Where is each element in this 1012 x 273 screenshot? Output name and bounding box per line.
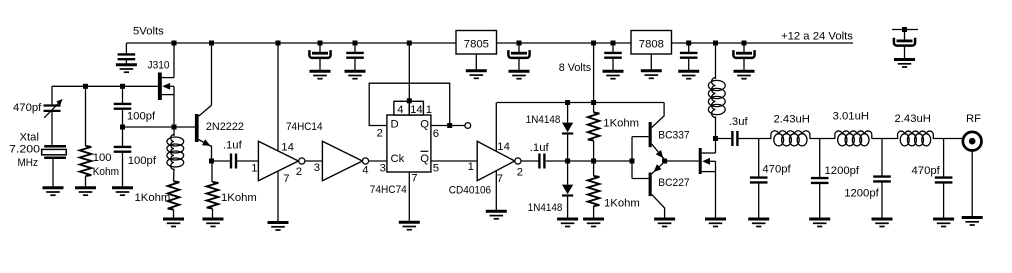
wire 8V feed down	[593, 43, 595, 103]
diode D2 1N4148	[562, 161, 573, 218]
wire J310 source down	[173, 86, 175, 127]
svg-text:Kohm: Kohm	[93, 166, 119, 178]
svg-text:Q: Q	[420, 153, 429, 165]
node gate-100K	[83, 84, 88, 89]
pin 2	[296, 166, 302, 178]
diode D1 1N4148	[562, 103, 573, 162]
label 2.43uH L3	[895, 113, 931, 125]
svg-text:7: 7	[411, 172, 417, 184]
wire L3 to RF out	[933, 138, 962, 140]
wire 7805 ground lead	[475, 54, 477, 70]
svg-text:1Kohm: 1Kohm	[604, 198, 640, 210]
svg-text:470pf: 470pf	[912, 165, 941, 177]
svg-text:7: 7	[283, 173, 289, 185]
wire RF shield to gnd	[971, 151, 973, 217]
label 5Volts	[133, 26, 164, 38]
svg-text:1N4148: 1N4148	[526, 114, 561, 126]
svg-text:4: 4	[362, 164, 368, 176]
ground below 470pf-b	[933, 219, 954, 227]
wire emitter to coupling cap	[212, 160, 231, 162]
ground below FET	[705, 219, 726, 227]
capacitor C8 input electrolytic	[894, 30, 915, 59]
svg-text:.1uf: .1uf	[530, 142, 550, 154]
ground below emitter resistor	[203, 219, 224, 227]
node rail-C2	[318, 41, 323, 46]
wire 8V rail segment	[497, 42, 632, 44]
wire rail to RF choke	[715, 43, 717, 79]
wire CD40106 Vcc	[495, 103, 497, 152]
pin 3 label	[380, 162, 386, 174]
svg-text:100pf: 100pf	[128, 155, 157, 167]
node signal-R	[591, 159, 596, 164]
ground below 100pf	[112, 188, 133, 196]
ground below C2	[310, 71, 331, 79]
capacitor trimmer 470pf	[44, 86, 63, 145]
label CD40106	[449, 185, 491, 197]
svg-text:1: 1	[251, 162, 257, 174]
node base riser	[630, 159, 635, 164]
crystal X1 7.200MHz	[42, 146, 67, 186]
label 470pf-b	[912, 165, 941, 177]
pin 3	[314, 162, 320, 174]
svg-text:D: D	[391, 118, 399, 130]
svg-text:RF: RF	[966, 113, 981, 125]
node driver output	[662, 159, 667, 164]
svg-text:14: 14	[410, 104, 423, 116]
svg-text:7.200: 7.200	[9, 144, 40, 156]
label 1N4148 lower	[528, 202, 563, 214]
node Q-feedback	[447, 123, 452, 128]
node rail-J310	[172, 41, 177, 46]
svg-text:1Kohm: 1Kohm	[135, 192, 171, 204]
svg-text:2: 2	[517, 167, 523, 179]
wire +12-24V rail segment	[672, 42, 854, 44]
svg-text:Xtal: Xtal	[20, 131, 39, 143]
svg-text:470pf: 470pf	[762, 164, 791, 176]
svg-text:4: 4	[397, 104, 403, 116]
wire U1B to 74HC74 Ck	[369, 160, 387, 162]
capacitor C3	[346, 43, 364, 70]
svg-text:7805: 7805	[464, 38, 489, 50]
wire rail to 74HC74 pin14	[408, 43, 410, 101]
wire Qbar to CD40106	[431, 160, 477, 162]
pin 2 label	[517, 167, 523, 179]
ground below 1200pf-a	[809, 219, 830, 227]
ground below 100Kohm	[75, 188, 96, 196]
label 1N4148 upper	[526, 114, 561, 126]
regulator U3 7805	[456, 31, 497, 55]
svg-text:7: 7	[497, 173, 503, 185]
capacitor C2 electrolytic	[309, 43, 330, 70]
svg-text:3: 3	[380, 162, 386, 174]
inductor L2 3.01uH	[835, 131, 872, 146]
wire .3uf to L1	[739, 138, 771, 140]
wire rail left end drop	[125, 43, 127, 54]
svg-text:1: 1	[468, 161, 474, 173]
pin 6 label	[433, 128, 439, 140]
ground below C1	[116, 65, 137, 73]
capacitor C5	[604, 43, 622, 70]
label 7.200	[9, 144, 40, 156]
wire CD40106 gnd	[495, 171, 497, 210]
capacitor C4 electrolytic	[508, 43, 529, 70]
node rail-C5	[611, 41, 616, 46]
wire 2N2222 emitter down	[211, 146, 213, 162]
label Qbar	[420, 151, 429, 165]
wire tap to .3uf	[716, 138, 732, 140]
svg-text:6: 6	[433, 128, 439, 140]
ground below RF connector	[962, 218, 983, 226]
wire 74HC74 pin7 gnd	[408, 172, 410, 221]
label Xtal	[20, 131, 39, 143]
flip-flop U2 74HC74 body	[387, 115, 431, 172]
capacitor 100pf lower	[114, 127, 132, 186]
pin 1 label	[426, 104, 432, 116]
node rail-C3	[353, 41, 358, 46]
svg-text:1200pf: 1200pf	[844, 187, 879, 199]
ground below BC227	[654, 219, 675, 227]
transistor Q3 BC337	[632, 103, 665, 160]
label Kohm	[93, 166, 119, 178]
capacitor 1200pf-a	[811, 178, 829, 218]
node rail-C6	[686, 41, 691, 46]
label 8 Volts	[559, 62, 592, 74]
pin 14	[281, 142, 294, 154]
wire 1200pf-b drop	[881, 139, 883, 177]
svg-text:2N2222: 2N2222	[206, 121, 244, 133]
pin 5 label	[433, 163, 439, 175]
label 1Kohm pulldown	[604, 198, 640, 210]
svg-text:BC337: BC337	[658, 130, 689, 142]
svg-text:2: 2	[296, 166, 302, 178]
svg-text:2: 2	[377, 128, 383, 140]
inverter U1A 74HC14	[258, 141, 305, 180]
svg-text:100pf: 100pf	[127, 111, 156, 123]
label Ck	[391, 153, 405, 165]
wire input cap stub	[892, 29, 918, 31]
capacitor .1uf driver	[539, 154, 544, 169]
label 2N2222	[206, 121, 244, 133]
ground below pulldown	[583, 219, 604, 227]
inverter U4 CD40106	[477, 141, 521, 180]
pin 4	[362, 164, 368, 176]
resistor 1Kohm tank	[168, 181, 180, 217]
svg-text:.3uf: .3uf	[729, 116, 749, 128]
svg-text:1: 1	[426, 104, 432, 116]
svg-text:Q: Q	[420, 118, 429, 130]
label 74HC74	[370, 184, 407, 196]
transistor Q5 output FET	[699, 148, 716, 174]
capacitor 1200pf-b	[873, 177, 891, 218]
wire 1200pf-a drop	[819, 139, 821, 178]
inductor tank coil	[167, 127, 184, 181]
wire Q output	[431, 125, 465, 127]
node 8V-1Kohm	[591, 100, 596, 105]
ground below C6	[678, 71, 699, 79]
label MHz	[18, 157, 39, 169]
capacitor .1uf coupling	[231, 154, 236, 169]
svg-text:Ck: Ck	[391, 153, 405, 165]
node rail 8V feed	[591, 41, 596, 46]
inductor L3 2.43uH	[898, 131, 934, 146]
wire 8V distribution line	[497, 102, 664, 104]
terminal Q open circle	[465, 123, 471, 129]
label J310	[148, 59, 170, 71]
pin 7	[283, 173, 289, 185]
wire inverter Vcc to rail	[277, 43, 279, 151]
pin 7 label	[497, 173, 503, 185]
transistor Q2 2N2222	[195, 105, 212, 146]
wire 470pf-a drop	[758, 139, 760, 178]
label 1200pf-a	[825, 165, 860, 177]
ground below 74HC74	[399, 222, 420, 230]
label +12 a 24 Volts	[781, 30, 853, 42]
wire L1 to L2	[810, 138, 835, 140]
wire U1A to U1B	[305, 160, 323, 162]
svg-text:470pf: 470pf	[13, 102, 42, 114]
resistor 100Kohm	[80, 86, 92, 186]
label 470pf	[13, 102, 42, 114]
node rail-74HC14	[276, 41, 281, 46]
svg-text:1Kohm: 1Kohm	[603, 118, 639, 130]
ground below C7	[734, 71, 755, 79]
resistor 1Kohm pulldown	[588, 161, 600, 218]
label 1Kohm emitter	[221, 192, 257, 204]
ground below C5	[603, 71, 624, 79]
wire choke to drain	[715, 117, 717, 154]
node choke/.3uf tap	[713, 136, 718, 141]
svg-text:2.43uH: 2.43uH	[895, 113, 931, 125]
svg-text:BC227: BC227	[658, 177, 689, 189]
wire J310 drain to rail	[173, 43, 175, 78]
label .1uf driver	[530, 142, 550, 154]
wire FET source to gnd	[715, 161, 717, 217]
wire CD40106 out to cap	[521, 160, 539, 162]
node gate-100pf	[120, 84, 125, 89]
svg-text:8 Volts: 8 Volts	[559, 62, 592, 74]
svg-text:+12 a 24 Volts: +12 a 24 Volts	[781, 30, 853, 42]
ground below 7805	[466, 71, 487, 79]
inductor L1 2.43uH	[771, 131, 810, 146]
label 100	[93, 152, 112, 164]
inverter U1B 74HC14	[322, 141, 368, 180]
label 100pf lower	[128, 155, 157, 167]
node rail-C4	[517, 41, 522, 46]
label BC337	[658, 130, 689, 142]
label 74HC14	[286, 121, 323, 133]
label BC227	[658, 177, 689, 189]
ground below 74HC14	[268, 223, 289, 231]
label Q	[420, 118, 429, 130]
svg-text:1Kohm: 1Kohm	[221, 192, 257, 204]
label 1Kohm pullup	[603, 118, 639, 130]
svg-text:MHz: MHz	[18, 157, 39, 169]
resistor 1Kohm emitter	[207, 161, 219, 218]
node 8V-diode	[565, 100, 570, 105]
svg-text:1200pf: 1200pf	[825, 165, 860, 177]
node rail-U2 Vcc	[407, 41, 412, 46]
wire L2 to L3	[872, 138, 898, 140]
svg-text:5: 5	[433, 163, 439, 175]
ground below 470pf-a	[748, 219, 769, 227]
pin 1	[251, 162, 257, 174]
wire Q-to-D feedback loop	[369, 83, 450, 125]
label .1uf coupling	[223, 140, 243, 152]
ground below C3	[345, 71, 366, 79]
ground below tank resistor	[163, 219, 184, 227]
svg-text:14: 14	[281, 142, 294, 154]
wire 2N2222 collector to rail	[211, 43, 213, 105]
svg-text:74HC14: 74HC14	[286, 121, 323, 133]
label 1Kohm tank	[135, 192, 171, 204]
ground below C4	[509, 71, 530, 79]
wire gate line	[52, 85, 158, 87]
capacitor C6	[680, 43, 698, 70]
pin 1 label	[468, 161, 474, 173]
label .3uf	[729, 116, 749, 128]
wire cap to base node	[546, 160, 632, 162]
node source-tank	[172, 125, 177, 130]
label 1200pf-b	[844, 187, 879, 199]
74HC74 pin14 box	[409, 101, 423, 115]
transistor Q4 BC227	[632, 162, 665, 218]
svg-text:2.43uH: 2.43uH	[774, 113, 810, 125]
node signal-D1	[565, 159, 570, 164]
node divider tap	[120, 125, 125, 130]
ground below CD40106	[486, 211, 507, 219]
ground below 1200pf-b	[872, 219, 893, 227]
svg-text:.1uf: .1uf	[223, 140, 243, 152]
svg-text:74HC74: 74HC74	[370, 184, 407, 196]
capacitor 100pf upper	[114, 86, 132, 127]
capacitor 470pf-a	[750, 178, 768, 218]
74HC74 pin4 box	[394, 101, 409, 115]
label 470pf-a	[762, 164, 791, 176]
node rail-choke	[713, 41, 718, 46]
label 100pf upper	[127, 111, 156, 123]
svg-text:100: 100	[93, 152, 112, 164]
svg-text:3.01uH: 3.01uH	[833, 110, 869, 122]
label 3.01uH	[833, 110, 869, 122]
svg-text:J310: J310	[148, 59, 170, 71]
capacitor .3uf	[732, 131, 737, 146]
wire driver to gate	[665, 160, 699, 162]
ground below C8	[894, 60, 915, 68]
wire cap to inverter pin1	[236, 160, 258, 162]
inductor RF choke	[708, 78, 725, 118]
regulator U5 7808	[631, 31, 672, 55]
transistor Q1 J310	[158, 73, 174, 101]
wire base line	[123, 126, 196, 128]
ground below 7808	[641, 71, 662, 79]
resistor 1Kohm pullup	[588, 103, 600, 162]
node rail-Q2	[209, 41, 214, 46]
pin 14 label	[410, 104, 423, 116]
svg-text:3: 3	[314, 162, 320, 174]
pin 14 label	[497, 141, 510, 153]
svg-text:1N4148: 1N4148	[528, 202, 563, 214]
wire base riser	[631, 137, 633, 179]
svg-text:14: 14	[497, 141, 510, 153]
svg-text:5Volts: 5Volts	[133, 26, 164, 38]
label RF	[966, 113, 981, 125]
label D	[391, 118, 399, 130]
pin 7 label	[411, 172, 417, 184]
connector RF output	[963, 132, 982, 151]
capacitor C7 electrolytic	[733, 43, 754, 70]
capacitor C1 (5V rail bypass left)	[118, 54, 136, 63]
node rail-C7	[742, 41, 747, 46]
node emitter	[209, 159, 214, 164]
wire 470pf-b drop	[943, 139, 945, 178]
svg-text:7808: 7808	[639, 38, 664, 50]
node Vcc-pinbox	[407, 98, 412, 103]
wire 5V power rail	[126, 42, 456, 44]
svg-text:CD40106: CD40106	[449, 185, 491, 197]
pin 4 label	[397, 104, 403, 116]
ground below D2	[557, 219, 578, 227]
wire 7808 ground lead	[650, 54, 652, 70]
label 2.43uH L1	[774, 113, 810, 125]
node input cap top	[902, 27, 907, 32]
capacitor 470pf-b	[935, 178, 953, 218]
wire inverter gnd	[277, 171, 279, 221]
pin 2 label	[377, 128, 383, 140]
ground below crystal	[43, 188, 64, 196]
